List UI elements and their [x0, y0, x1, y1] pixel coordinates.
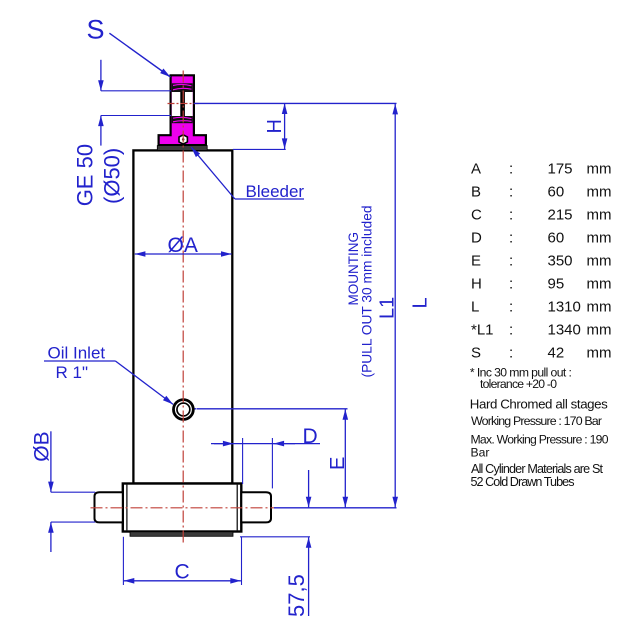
svg-text:D: D: [303, 425, 318, 448]
vertical centerline: [182, 71, 184, 544]
svg-text:1340: 1340: [548, 321, 581, 338]
svg-text:mm: mm: [587, 275, 612, 292]
ØB dimension: [30, 431, 95, 552]
svg-text:*L1: *L1: [471, 321, 494, 338]
svg-text:B: B: [471, 183, 481, 200]
svg-text:60: 60: [548, 183, 565, 200]
svg-text:C: C: [175, 561, 190, 584]
svg-text:1310: 1310: [548, 298, 581, 315]
svg-text::: :: [509, 206, 513, 223]
svg-text:mm: mm: [587, 252, 612, 269]
svg-text:60: 60: [548, 229, 565, 246]
svg-text:S: S: [471, 344, 481, 361]
svg-text::: :: [509, 321, 513, 338]
GE 50 (Ø50) label: [72, 144, 124, 206]
svg-text:Max. Working Pressure : 190: Max. Working Pressure : 190: [471, 433, 609, 447]
pin-center extension line to right: [194, 102, 397, 104]
bleeder hex nut: [179, 135, 187, 144]
svg-text:52 Cold Drawn Tubes: 52 Cold Drawn Tubes: [471, 475, 575, 489]
svg-text:mm: mm: [587, 298, 612, 315]
E dimension: [327, 409, 349, 507]
svg-text:L: L: [471, 298, 479, 315]
C dimension: [123, 537, 241, 585]
svg-text:57,5: 57,5: [284, 574, 309, 617]
Oil Inlet label: [44, 344, 173, 405]
svg-text::: :: [509, 275, 513, 292]
svg-text:Oil Inlet: Oil Inlet: [48, 344, 106, 363]
svg-text::: :: [509, 298, 513, 315]
svg-text:GE 50: GE 50: [72, 144, 97, 206]
svg-text:tolerance +20 -0: tolerance +20 -0: [480, 377, 557, 391]
svg-text:(PULL OUT 30 mm included: (PULL OUT 30 mm included: [360, 206, 375, 378]
svg-text:42: 42: [548, 344, 565, 361]
horizontal centerline (trunnion axis): [91, 507, 275, 509]
svg-text:L: L: [410, 297, 432, 308]
svg-text:ØB: ØB: [30, 431, 53, 461]
svg-text::: :: [509, 252, 513, 269]
rod end assembly (magenta): [157, 75, 207, 150]
svg-text::: :: [509, 183, 513, 200]
S leader arrow: [109, 33, 170, 77]
svg-text:Bleeder: Bleeder: [246, 182, 305, 201]
bottom plate strip: [130, 532, 233, 537]
notes: [470, 365, 609, 489]
svg-text:R 1": R 1": [56, 363, 89, 382]
H dimension: [233, 103, 286, 149]
svg-text:mm: mm: [587, 183, 612, 200]
svg-text:175: 175: [548, 161, 573, 178]
upper bearing race: [172, 83, 193, 92]
svg-text:S: S: [87, 15, 105, 45]
svg-text:All Cylinder Materials are St: All Cylinder Materials are St: [471, 462, 604, 476]
svg-text::: :: [509, 344, 513, 361]
oil inlet level line: [197, 408, 348, 410]
svg-text:mm: mm: [587, 161, 612, 178]
data table: [471, 161, 612, 362]
svg-text:Hard Chromed all stages: Hard Chromed all stages: [470, 397, 608, 412]
oil inlet port: [174, 400, 197, 420]
57,5 dimension: [240, 470, 310, 617]
svg-text:mm: mm: [587, 321, 612, 338]
D dimension: [211, 425, 320, 488]
svg-text:D: D: [471, 229, 482, 246]
svg-text:350: 350: [548, 252, 573, 269]
svg-text:A: A: [471, 161, 481, 178]
S label: [87, 15, 105, 45]
svg-text:C: C: [471, 206, 482, 223]
bearing window: [172, 92, 193, 116]
svg-text:mm: mm: [587, 206, 612, 223]
S dimension lines left of rod end: [101, 60, 171, 146]
svg-text::: :: [509, 229, 513, 246]
lower bearing race: [172, 116, 193, 123]
svg-text:95: 95: [548, 275, 565, 292]
Bleeder label and leader: [191, 147, 304, 201]
svg-text:Working Pressure : 170 Bar: Working Pressure : 170 Bar: [471, 414, 602, 428]
svg-text:mm: mm: [587, 344, 612, 361]
gland strip under flange: [157, 146, 207, 151]
rod end pin centerline dash: [168, 103, 199, 105]
cylinder tube body: [133, 150, 232, 483]
svg-text:E: E: [471, 252, 481, 269]
svg-text:215: 215: [548, 206, 573, 223]
svg-text:mm: mm: [587, 229, 612, 246]
MOUNTING rotated note: [346, 206, 375, 378]
right trunnion pin: [241, 492, 271, 522]
svg-text:(Ø50): (Ø50): [100, 148, 125, 204]
svg-text:H: H: [264, 119, 286, 133]
left trunnion pin: [95, 492, 123, 522]
L1 / L dimension line: [274, 104, 432, 508]
ØA dimension: [135, 234, 232, 257]
svg-text:L1: L1: [376, 297, 398, 319]
svg-text::: :: [509, 161, 513, 178]
trunnion mount block: [123, 484, 242, 532]
svg-text:Bar: Bar: [471, 446, 490, 460]
svg-text:H: H: [471, 275, 482, 292]
